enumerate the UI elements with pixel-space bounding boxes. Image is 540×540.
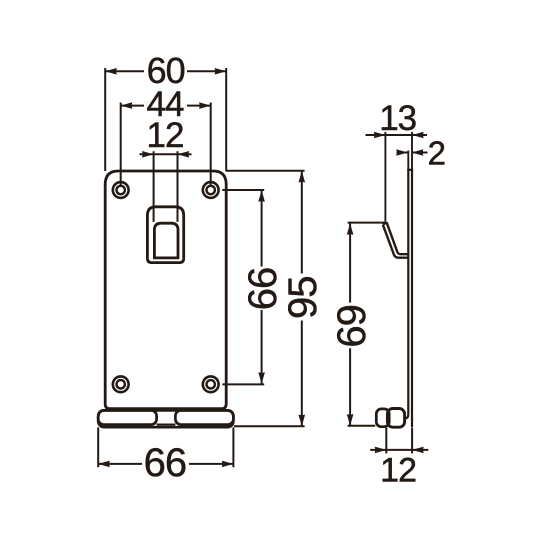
dimension 13: arrows (374, 132, 424, 139)
dimension 12 top: extension lines (154, 151, 178, 222)
side view: foot pad front (387, 409, 404, 428)
dimension 66 vertical: extension lines (222, 190, 264, 384)
front view: base foot left (98, 410, 156, 424)
svg-text:66: 66 (144, 441, 187, 485)
svg-text:2: 2 (428, 134, 445, 171)
dimension 66 bottom: extension lines (98, 427, 233, 467)
front view: hook tab inner slot (154, 223, 178, 258)
dimension 60: arrows (105, 68, 226, 75)
dimension 44: dim line (121, 105, 211, 107)
front view: plate outline (105, 171, 226, 409)
hole bottom-right (203, 376, 219, 392)
dimension 13: dim line and tails (366, 134, 428, 136)
dimension 66 bottom: arrows (98, 461, 233, 468)
dimension 69: arrows (347, 223, 354, 426)
dimension 12 bottom: extension lines (386, 427, 412, 453)
hole top-left (113, 182, 129, 198)
dimension 69: dim line (349, 223, 351, 426)
hole bottom-left (113, 376, 129, 392)
hole top-right (203, 182, 219, 198)
dimension 2: dim lines (397, 152, 428, 154)
dimension 13: extension line left (384, 132, 386, 222)
side view: foot pad rear (376, 409, 389, 427)
side view: plate top cap (407, 169, 413, 171)
svg-text:95: 95 (281, 277, 325, 320)
dimension 66 bottom: dim line (98, 463, 233, 465)
side view: wall plate edge-on (two vertical lines) (404, 170, 408, 419)
dimension 95: arrows (299, 171, 306, 426)
svg-text:12: 12 (147, 116, 184, 155)
svg-text:12: 12 (380, 451, 416, 489)
dimension 60: extension lines (105, 68, 226, 171)
dimension 12 top: dim line and tails (140, 153, 192, 155)
dimension 66 vertical: dim line (261, 190, 263, 384)
dimension 2: arrows (396, 149, 423, 156)
dimension 69: extension lines (348, 223, 387, 426)
dimension 95: extension lines (226, 171, 305, 426)
dimension 66 vertical: arrows (258, 190, 265, 384)
svg-text:69: 69 (330, 305, 374, 348)
dimension 44: arrows (121, 102, 211, 109)
front view: base bar outer (98, 410, 233, 427)
dimension 44: extension lines (121, 103, 211, 187)
svg-text:66: 66 (241, 268, 285, 311)
dimension 12 top: arrows (142, 151, 189, 158)
dimension 95: dim line (301, 171, 303, 426)
front view: base foot right (175, 410, 233, 424)
front view: base mid line (157, 424, 176, 426)
svg-text:13: 13 (379, 99, 416, 138)
dimension 60: dim line (105, 70, 226, 72)
dimension 12 bottom: arrows (375, 447, 424, 454)
side view: extension lines above plate (408, 132, 412, 170)
front view: hook tab outer (147, 207, 183, 259)
dimension 12 bottom: dim line and tails (370, 449, 428, 451)
side view: hook profile (387, 222, 408, 254)
